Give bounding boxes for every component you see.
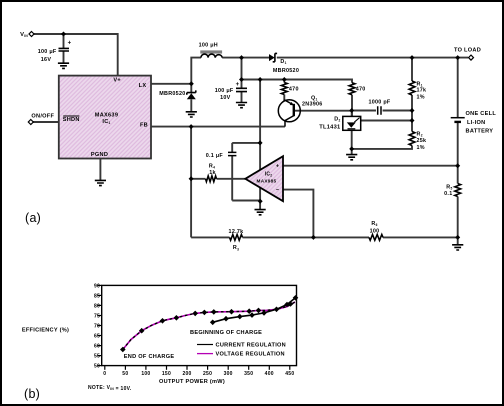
svg-text:EFFICIENCY (%): EFFICIENCY (%) [22, 328, 69, 334]
svg-text:16V: 16V [41, 57, 52, 63]
svg-text:1%: 1% [417, 145, 425, 151]
svg-text:MBR0520: MBR0520 [273, 68, 299, 74]
svg-text:ONE CELL: ONE CELL [466, 111, 497, 117]
svg-text:12.7k: 12.7k [229, 229, 244, 235]
svg-text:(a): (a) [25, 211, 41, 225]
svg-text:400: 400 [265, 371, 274, 377]
svg-text:150: 150 [162, 371, 171, 377]
svg-text:60: 60 [94, 343, 100, 349]
svg-text:0: 0 [103, 371, 106, 377]
svg-text:TO LOAD: TO LOAD [454, 48, 481, 54]
svg-text:50: 50 [122, 371, 128, 377]
svg-text:MBR0520: MBR0520 [159, 91, 185, 97]
svg-text:LI-ION: LI-ION [467, 120, 485, 126]
svg-text:(b): (b) [24, 387, 40, 401]
svg-text:BATTERY: BATTERY [466, 128, 494, 134]
svg-text:65: 65 [94, 333, 100, 339]
svg-text:50: 50 [94, 364, 100, 370]
svg-text:CURRENT REGULATION: CURRENT REGULATION [216, 343, 287, 349]
svg-text:75: 75 [94, 313, 100, 319]
svg-text:100 μH: 100 μH [199, 43, 218, 49]
svg-text:VOLTAGE REGULATION: VOLTAGE REGULATION [216, 352, 285, 358]
svg-text:+: + [276, 163, 279, 169]
svg-text:100: 100 [370, 228, 380, 234]
svg-text:FB: FB [140, 122, 148, 128]
svg-text:BEGINNING OF CHARGE: BEGINNING OF CHARGE [190, 330, 262, 336]
svg-text:MAX639: MAX639 [95, 112, 118, 118]
svg-text:LX: LX [139, 83, 147, 89]
svg-text:470: 470 [289, 87, 299, 93]
svg-text:OUTPUT POWER (mW): OUTPUT POWER (mW) [159, 379, 225, 385]
svg-text:+: + [236, 82, 240, 88]
svg-text:85: 85 [94, 293, 100, 299]
svg-text:350: 350 [244, 371, 253, 377]
svg-text:200: 200 [182, 371, 191, 377]
svg-text:70: 70 [94, 323, 100, 329]
svg-text:450: 450 [285, 371, 294, 377]
svg-text:ON/OFF: ON/OFF [31, 113, 54, 119]
svg-text:100: 100 [141, 371, 150, 377]
svg-text:PGND: PGND [91, 152, 108, 158]
svg-text:MAX985: MAX985 [257, 179, 277, 184]
svg-text:SHDN: SHDN [63, 117, 80, 123]
svg-text:+: + [68, 41, 72, 47]
svg-text:100 μF: 100 μF [215, 88, 234, 94]
svg-text:1000 pF: 1000 pF [368, 100, 390, 106]
svg-text:1%: 1% [417, 95, 425, 101]
svg-text:−: − [276, 188, 279, 194]
svg-text:10V: 10V [220, 95, 231, 101]
svg-text:55: 55 [94, 353, 100, 359]
svg-text:25k: 25k [417, 138, 427, 144]
svg-text:250: 250 [203, 371, 212, 377]
svg-text:2N3906: 2N3906 [302, 102, 323, 108]
svg-text:0.1 μF: 0.1 μF [206, 153, 224, 159]
svg-text:TL1431: TL1431 [319, 125, 340, 131]
svg-text:80: 80 [94, 303, 100, 309]
svg-text:0.1: 0.1 [444, 191, 452, 197]
svg-text:90: 90 [94, 283, 100, 289]
svg-text:100 μF: 100 μF [38, 49, 57, 55]
svg-text:1k: 1k [209, 170, 216, 176]
svg-text:17k: 17k [417, 88, 427, 94]
svg-text:470: 470 [356, 87, 366, 93]
svg-text:END OF CHARGE: END OF CHARGE [124, 354, 175, 360]
svg-text:V+: V+ [113, 78, 121, 84]
svg-text:300: 300 [224, 371, 233, 377]
